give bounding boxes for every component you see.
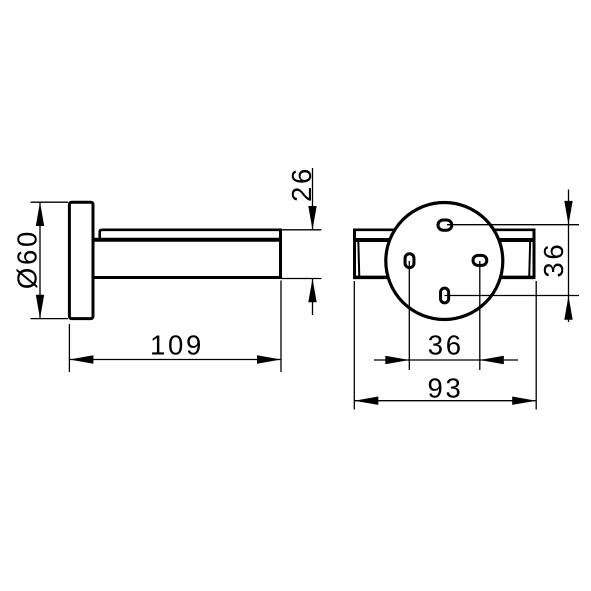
svg-text:36: 36 xyxy=(538,242,569,278)
svg-text:93: 93 xyxy=(428,373,464,404)
svg-text:26: 26 xyxy=(286,166,317,202)
svg-text:109: 109 xyxy=(150,329,204,360)
svg-text:Ø60: Ø60 xyxy=(12,229,43,289)
svg-text:36: 36 xyxy=(428,329,464,360)
